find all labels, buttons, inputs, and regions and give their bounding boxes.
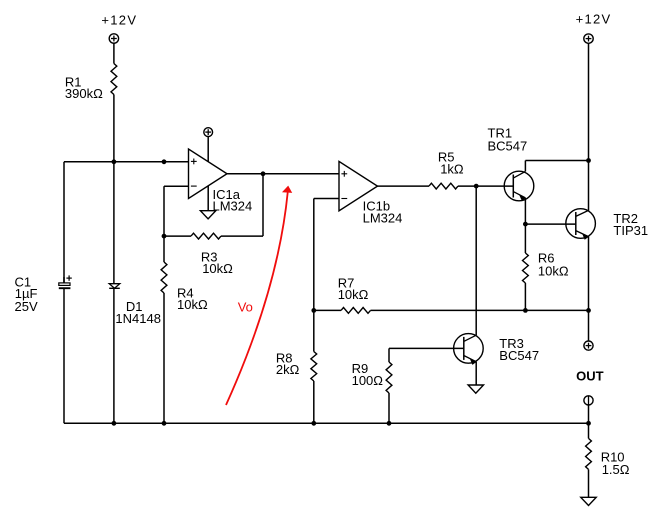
svg-text:BC547: BC547 [499, 348, 539, 363]
label TR1 BC547 [488, 126, 528, 154]
wire IC1b output [378, 185, 430, 187]
junction TR1 collector rail [586, 158, 591, 163]
svg-text:10kΩ: 10kΩ [338, 287, 369, 302]
wire node to R8 [313, 310, 315, 351]
wire TR1 emitter to TR2 base [525, 223, 575, 225]
label OUT [576, 369, 604, 384]
wire R3 to output branch [221, 174, 263, 236]
wire R4 to rail [163, 293, 165, 423]
junction node A [474, 184, 479, 189]
resistor R3 [191, 233, 221, 239]
wire IC1a V+ pin [207, 137, 209, 162]
wire +12V rail right [588, 43, 590, 210]
ground IC1a [200, 211, 215, 219]
power terminal +12V right [584, 34, 593, 43]
wire R10 to ground [588, 469, 590, 497]
svg-text:10kΩ: 10kΩ [177, 297, 208, 312]
wire node to D1 [113, 162, 115, 284]
ground TR3 [468, 385, 483, 393]
label R1 390k [65, 74, 103, 101]
wire TR1 emitter to R6 [524, 224, 526, 253]
wire feedback node to R3 [164, 235, 191, 237]
transistor TR3 [454, 334, 484, 365]
resistor R8 [311, 352, 317, 382]
label R6 10k [538, 251, 569, 279]
label R9 100 [352, 361, 384, 388]
svg-text:10kΩ: 10kΩ [202, 261, 233, 276]
wire IC1a inverting input [164, 186, 189, 236]
svg-text:+12V: +12V [576, 11, 612, 26]
terminal OUT positive [584, 341, 593, 350]
wire feedback row left [314, 309, 341, 311]
svg-text:Vo: Vo [238, 299, 253, 314]
label TR2 TIP31 [613, 211, 648, 238]
wire TR1 emitter [524, 198, 526, 224]
wire noninverting input row [64, 161, 189, 163]
svg-text:LM324: LM324 [213, 199, 253, 214]
label R3 10k [201, 249, 233, 276]
wire TR2 emitter [588, 237, 590, 311]
junction R8 rail [311, 421, 316, 426]
svg-text:BC547: BC547 [488, 138, 528, 153]
svg-text:OUT: OUT [576, 369, 604, 384]
svg-text:+12V: +12V [101, 12, 137, 27]
label R10 1.5 [601, 449, 630, 477]
resistor R10 [586, 438, 592, 469]
wire R4 upper [163, 236, 165, 262]
wire R6 to feedback row [524, 283, 526, 310]
resistor R6 [523, 253, 529, 283]
junction R10 rail [586, 421, 591, 426]
capacitor C1 [59, 275, 72, 288]
svg-text:TIP31: TIP31 [613, 223, 648, 238]
wire IC1a output to IC1b [227, 173, 339, 175]
transistor TR2 [566, 209, 596, 240]
junction R6 bottom [523, 308, 528, 313]
svg-text:1kΩ: 1kΩ [440, 161, 464, 176]
label D1 1N4148 [115, 299, 161, 326]
ground R10 [581, 497, 596, 505]
wire IC1b inverting loop [314, 199, 339, 311]
junction D1 rail [112, 421, 117, 426]
resistor R9 [386, 362, 392, 393]
wire R9 top to TR3 base [389, 348, 464, 362]
svg-text:25V: 25V [15, 299, 38, 314]
diode D1 [109, 284, 120, 289]
label Vo (red) [238, 299, 253, 314]
label TR3 BC547 [499, 336, 539, 363]
wire node A to TR3 collector [475, 186, 477, 335]
junction R1/D1 node [112, 159, 117, 164]
junction feedback node [162, 234, 167, 239]
label +12V (left) [101, 12, 137, 27]
wire rail to R10 [588, 423, 590, 438]
junction node on input row [162, 159, 167, 164]
label IC1a LM324 [213, 187, 253, 214]
svg-text:LM324: LM324 [363, 211, 403, 226]
svg-text:2kΩ: 2kΩ [276, 362, 300, 377]
resistor R4 [161, 262, 167, 293]
wire TR3 emitter [475, 362, 477, 385]
junction TR1 emitter node [523, 222, 528, 227]
svg-text:1.5Ω: 1.5Ω [602, 462, 630, 477]
power terminal IC1a V+ [204, 128, 213, 137]
wire R1 to node row [113, 95, 115, 162]
resistor R5 [429, 183, 458, 189]
annotation arrow Vo [226, 186, 292, 405]
wire D1 to rail [113, 288, 115, 423]
wire C1 to rail [63, 288, 65, 423]
terminal OUT return [584, 396, 593, 405]
op-amp IC1a [189, 149, 228, 199]
transistor TR1 [504, 171, 534, 201]
wire R9 to rail [388, 393, 390, 423]
junction R8 top node [311, 308, 316, 313]
resistor R1 [111, 64, 117, 95]
label C1 1uF 25V [15, 274, 38, 314]
label R4 10k [177, 285, 208, 312]
svg-text:100Ω: 100Ω [352, 373, 384, 388]
power terminal +12V left [109, 34, 118, 43]
wire node to C1 [63, 162, 65, 283]
label +12V (right) [576, 11, 612, 26]
wire IC1a gnd pin [207, 186, 209, 211]
wire R8 to rail [313, 381, 315, 423]
svg-text:10kΩ: 10kΩ [538, 263, 569, 278]
op-amp IC1b [339, 161, 378, 211]
svg-text:1N4148: 1N4148 [115, 311, 161, 326]
wire OUT return to rail [588, 405, 590, 423]
resistor R7 [341, 308, 371, 314]
label R5 1k [438, 149, 464, 176]
svg-text:390kΩ: 390kΩ [65, 86, 103, 101]
junction IC1a output [261, 171, 266, 176]
junction R4 rail [162, 421, 167, 426]
wire bottom rail [64, 422, 589, 424]
wire R5 to TR1 base [458, 185, 513, 187]
junction output node [586, 308, 591, 313]
wire feedback row right [371, 309, 589, 311]
wire +12V left to R1 [113, 43, 115, 63]
wire TR1 collector [525, 161, 588, 172]
label R8 2k [276, 350, 300, 377]
label R7 10k [338, 275, 369, 302]
junction R9 rail [387, 421, 392, 426]
wire output node to OUT+ [588, 310, 590, 341]
label IC1b LM324 [363, 199, 403, 226]
